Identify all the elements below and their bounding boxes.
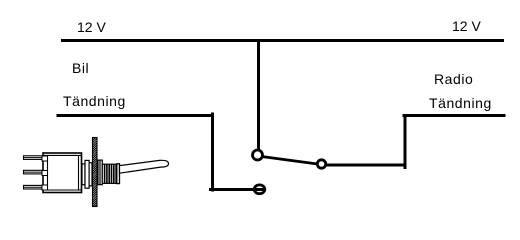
wire: bil tändning lead (57, 114, 213, 117)
label: Tändning (right) (429, 96, 492, 110)
toggle switch: terminal lug 3 (24, 185, 44, 189)
toggle switch: mounting nut (98, 160, 102, 185)
wire: radio tändning lead (403, 114, 506, 117)
wire: stub to unused terminal (209, 188, 264, 191)
label: 12 V (left) (77, 20, 106, 34)
toggle switch: terminal lug 1 (24, 156, 44, 160)
unused terminal eyelet (254, 185, 265, 194)
wire: 12 V supply rail (61, 39, 504, 42)
wire: radio branch vertical riser (404, 114, 407, 169)
label: Bil (72, 61, 89, 75)
label: Tändning (left) (63, 94, 126, 108)
toggle switch: body case (42, 153, 82, 193)
toggle switch: washer stack (82, 160, 92, 188)
wire: throw contact to radio branch (326, 164, 406, 167)
toggle switch: terminal lug 2 (24, 170, 44, 174)
wire: feed from rail to switch pole (257, 41, 260, 151)
label: 12 V (right) (452, 19, 481, 33)
toggle switch: lever (bat handle) (120, 160, 169, 173)
wire: bil branch vertical drop (211, 113, 214, 192)
switch pole contact (common) (253, 150, 263, 160)
switch lever (wiper arm) (262, 157, 318, 165)
switch throw contact (317, 160, 325, 168)
label: Radio (434, 72, 473, 86)
toggle switch: mounting panel (hatched) (92, 134, 98, 214)
toggle switch: threaded bushing (102, 164, 119, 184)
